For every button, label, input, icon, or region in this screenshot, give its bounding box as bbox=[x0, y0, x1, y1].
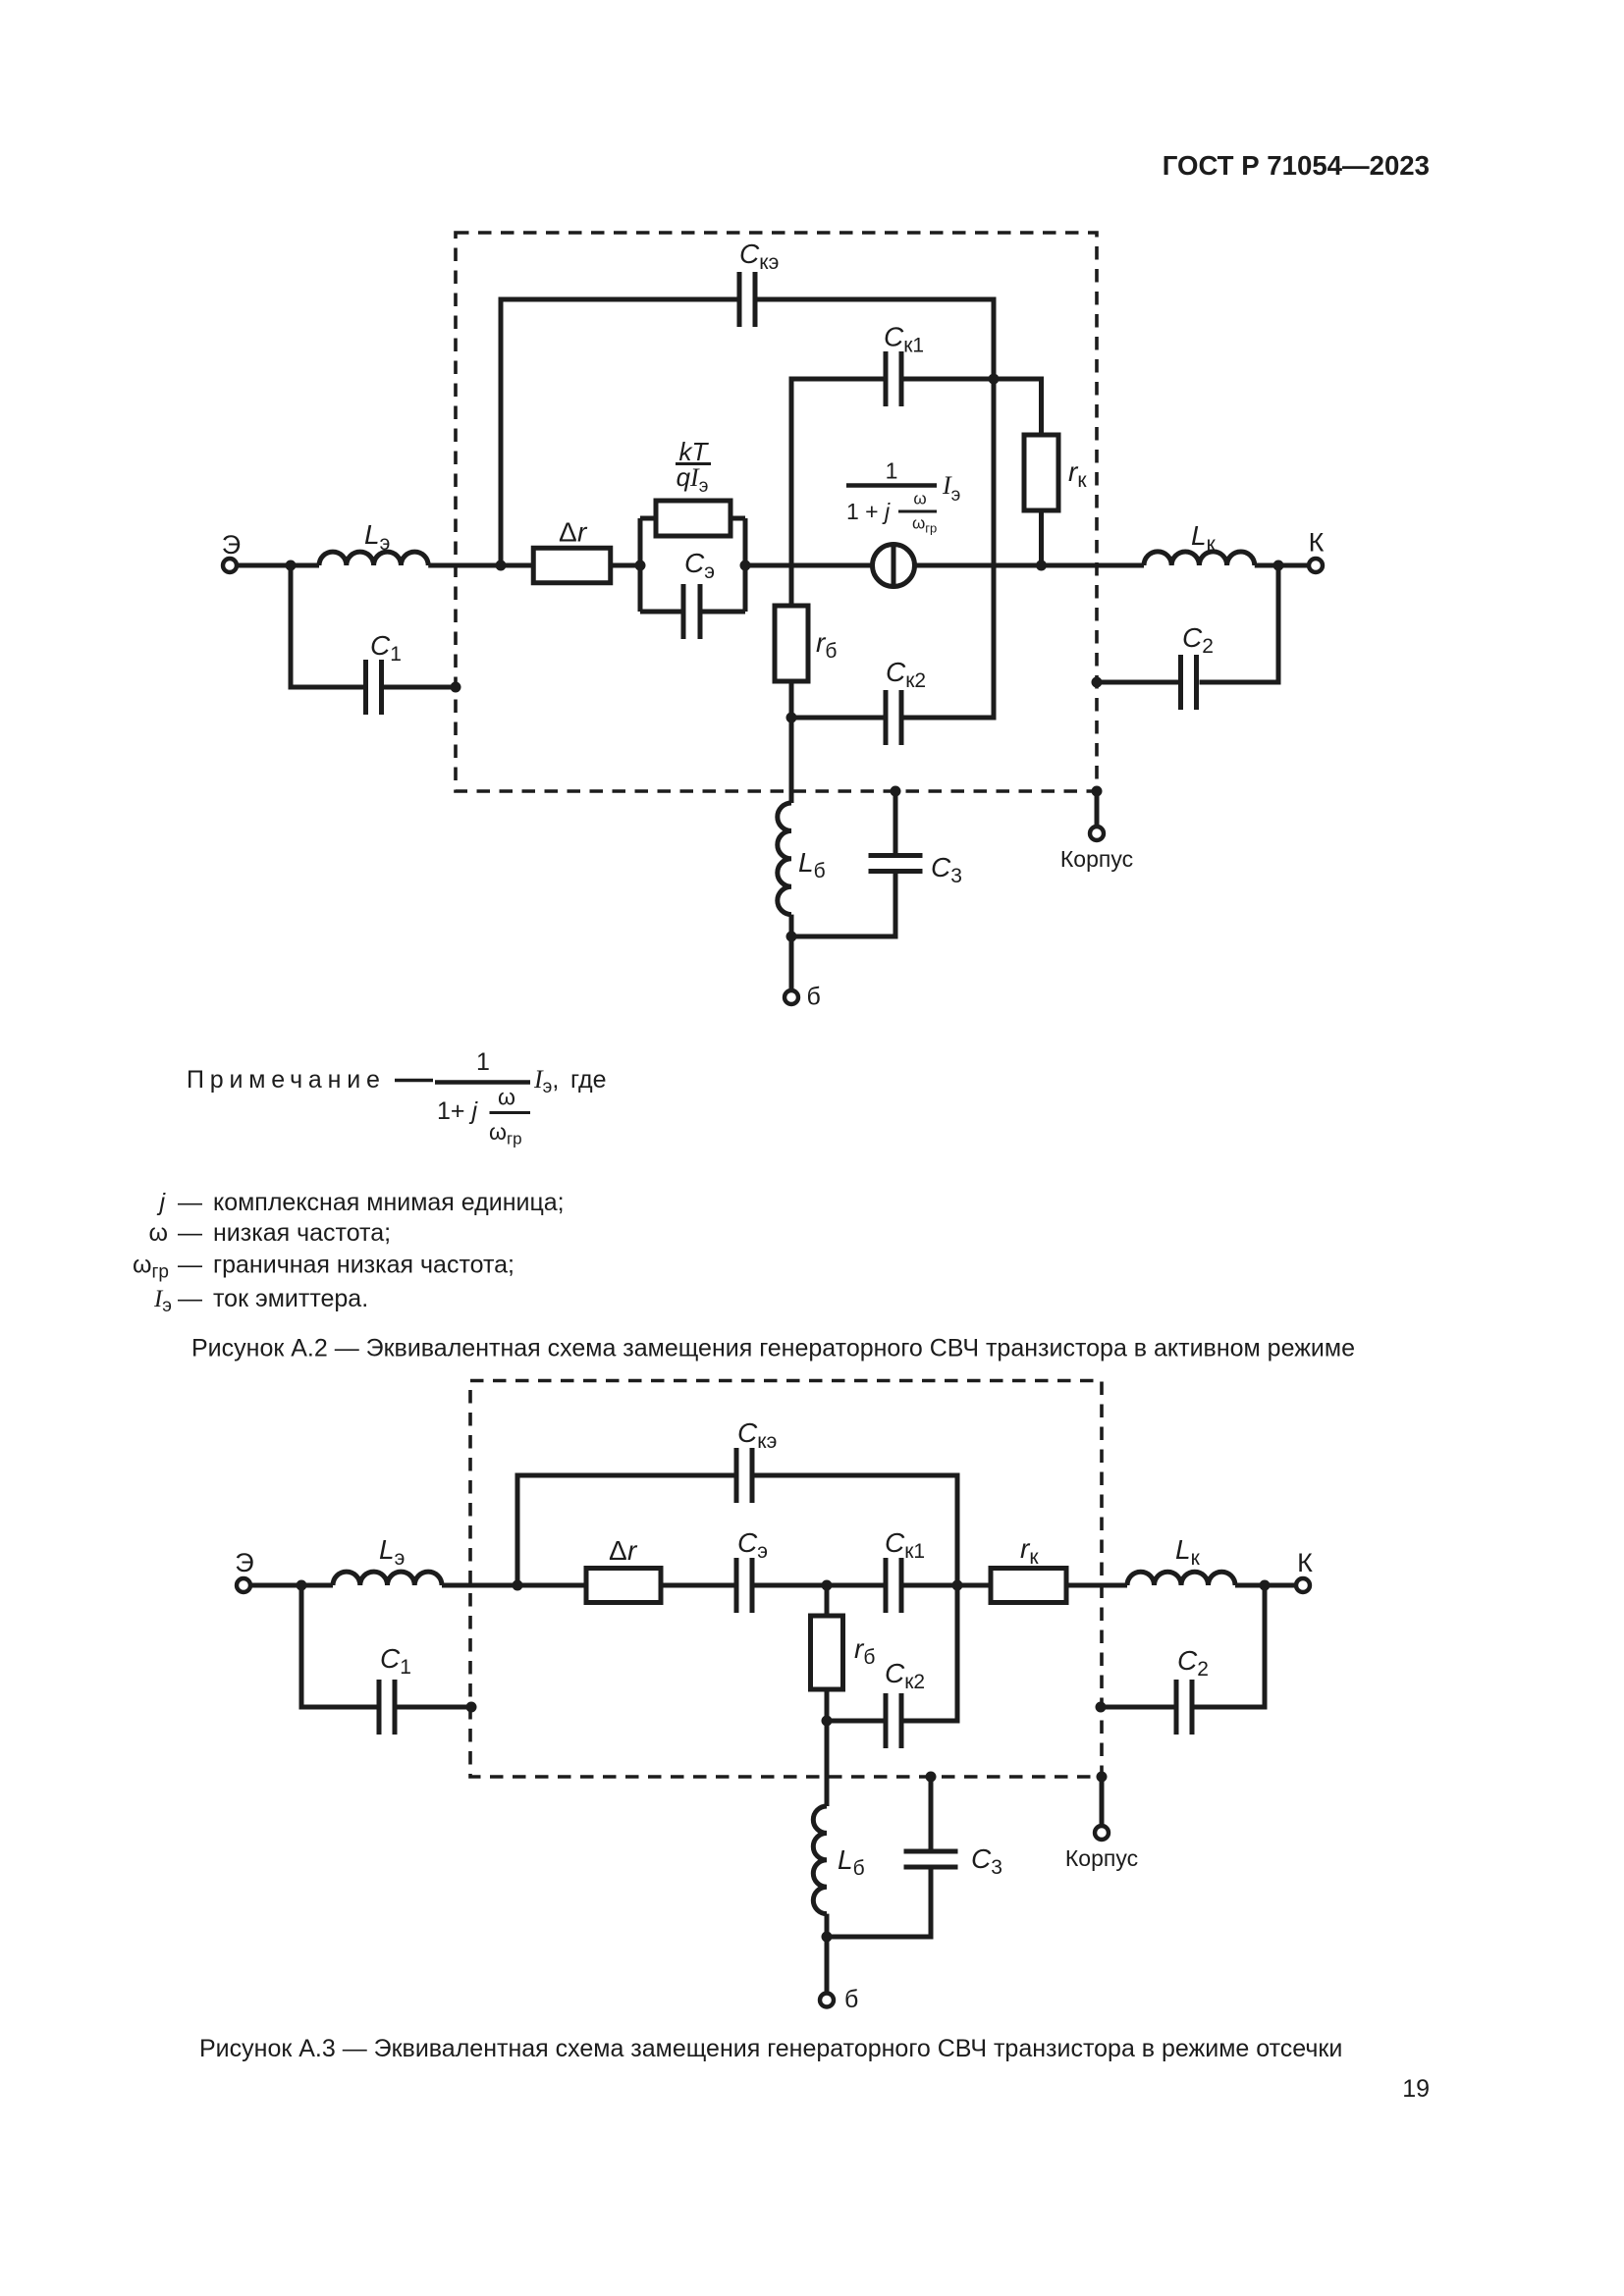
svg-text:б: б bbox=[807, 984, 821, 1011]
svg-text:—: — bbox=[178, 1252, 202, 1279]
junction base/Cк2 node bbox=[822, 1716, 833, 1727]
terminal Э (emitter) bbox=[237, 1578, 250, 1592]
svg-text:Δ: Δ bbox=[559, 517, 577, 548]
wire Cк2 left lead bbox=[791, 716, 884, 721]
svg-text:1: 1 bbox=[476, 1048, 490, 1076]
wire case stub bbox=[1100, 1777, 1105, 1826]
wire C2 to case bbox=[1101, 1705, 1174, 1710]
wire C3 top lead bbox=[893, 791, 898, 853]
wire C2 branch right bbox=[1200, 565, 1279, 682]
capacitor Cкэ bbox=[739, 272, 755, 327]
svg-text:ω: ω bbox=[498, 1085, 515, 1110]
wire C1 branch left bbox=[291, 565, 363, 687]
wire Cк1 to rк bbox=[904, 1583, 992, 1588]
resistor rк bbox=[1024, 435, 1058, 510]
svg-text:19: 19 bbox=[1402, 2075, 1430, 2103]
wire Cэ to Cк1 bbox=[755, 1583, 884, 1588]
junction C3/base node bbox=[786, 932, 797, 942]
terminal Корпус (case) bbox=[1095, 1826, 1109, 1840]
junction C3 tap on case bbox=[891, 786, 901, 797]
inductor Lб bbox=[778, 803, 791, 915]
wire RC-pair frame bbox=[640, 518, 745, 612]
wire Lэ to Δr bbox=[428, 563, 534, 568]
svg-text:б: б bbox=[844, 1986, 858, 2013]
capacitor C2 bbox=[1181, 655, 1197, 710]
wire Cк2 left lead bbox=[827, 1719, 884, 1724]
capacitor Cэ bbox=[683, 584, 700, 639]
wire case stub bbox=[1095, 791, 1100, 827]
capacitor Cэ bbox=[736, 1558, 752, 1613]
wire Δr to Cэ bbox=[661, 1583, 734, 1588]
junction emitter/C1 node bbox=[297, 1580, 307, 1591]
junction cap-bank node bbox=[989, 374, 1000, 385]
junction RC-pair left node bbox=[635, 561, 646, 571]
wire C3 bottom lead bbox=[827, 1869, 931, 1937]
junction collector node (rк) bbox=[1036, 561, 1047, 571]
svg-text:комплексная мнимая единица;: комплексная мнимая единица; bbox=[213, 1189, 565, 1216]
svg-text:К: К bbox=[1309, 528, 1325, 558]
wire rк to Lк bbox=[1066, 1583, 1127, 1588]
svg-text:1 + j: 1 + j bbox=[846, 499, 891, 524]
svg-text:Э: Э bbox=[235, 1548, 253, 1577]
terminal Э (emitter) bbox=[223, 559, 237, 572]
junction case corner node bbox=[1097, 1772, 1108, 1783]
wire Cк1 left + base riser bbox=[791, 379, 884, 565]
resistor rб bbox=[825, 1585, 830, 1721]
terminal б (base) bbox=[785, 990, 798, 1004]
capacitor C3 bbox=[869, 856, 923, 872]
wire C1 to case bbox=[398, 1705, 472, 1710]
terminal Корпус (case) bbox=[1090, 827, 1104, 840]
wire rк to collector bbox=[1039, 510, 1044, 565]
inductor Lэ bbox=[319, 552, 428, 565]
terminal К (collector) bbox=[1296, 1578, 1310, 1592]
wire Cк1 to rк bbox=[904, 379, 1042, 435]
junction C2/case node bbox=[1092, 677, 1103, 688]
svg-text:—: — bbox=[178, 1219, 202, 1247]
wire emitter lead bbox=[250, 1583, 333, 1588]
wire C1 to case bbox=[384, 685, 456, 690]
capacitor C3 bbox=[904, 1851, 958, 1867]
terminal б (base) bbox=[820, 1994, 834, 2007]
resistor rк bbox=[991, 1569, 1066, 1603]
wire Lб to б terminal bbox=[789, 915, 794, 990]
svg-text:ω: ω bbox=[148, 1219, 168, 1247]
transistor case boundary (dashed) bbox=[470, 1381, 1102, 1778]
svg-text:ток эмиттера.: ток эмиттера. bbox=[213, 1285, 368, 1312]
junction case corner node bbox=[1092, 786, 1103, 797]
svg-text:ГОСТ Р 71054—2023: ГОСТ Р 71054—2023 bbox=[1163, 150, 1430, 181]
wire Cкэ branch left bbox=[517, 1475, 734, 1585]
svg-text:Рисунок А.3 — Эквивалентная сх: Рисунок А.3 — Эквивалентная схема замеще… bbox=[199, 2035, 1342, 2062]
resistor rб bbox=[789, 565, 794, 718]
inductor Lк bbox=[1144, 552, 1255, 565]
svg-text:Э: Э bbox=[222, 530, 241, 560]
junction C3/base node bbox=[822, 1932, 833, 1943]
svg-text:К: К bbox=[1297, 1548, 1313, 1577]
capacitor Cкэ bbox=[736, 1448, 752, 1503]
wire C3 bottom lead bbox=[791, 874, 895, 936]
wire Lэ to Δr bbox=[442, 1583, 586, 1588]
svg-text:Δ: Δ bbox=[609, 1535, 627, 1566]
junction cap-bank node bbox=[952, 1580, 963, 1591]
capacitor C1 bbox=[379, 1680, 395, 1735]
resistor kT/qIэ bbox=[656, 501, 731, 536]
junction C1/case node bbox=[451, 682, 461, 693]
junction Cкэ branch tap bbox=[496, 561, 507, 571]
wire Δr to RC pair bbox=[611, 563, 640, 568]
resistor Δr bbox=[586, 1569, 661, 1603]
wire C3 top lead bbox=[929, 1777, 934, 1849]
junction C3 tap on case bbox=[926, 1772, 937, 1783]
svg-text:1: 1 bbox=[886, 458, 898, 484]
svg-text:Корпус: Корпус bbox=[1060, 846, 1133, 872]
capacitor Cк2 bbox=[886, 1693, 901, 1748]
capacitor Cк1 bbox=[886, 1558, 901, 1613]
wire Lк to К bbox=[1255, 563, 1309, 568]
junction C2 tap bbox=[1260, 1580, 1271, 1591]
current source (dependent) bbox=[873, 545, 915, 587]
junction C2/case node bbox=[1096, 1702, 1107, 1713]
inductor Lк bbox=[1127, 1572, 1235, 1585]
resistor Δr bbox=[533, 548, 611, 583]
svg-text:низкая частота;: низкая частота; bbox=[213, 1219, 391, 1247]
junction Cкэ branch tap bbox=[513, 1580, 523, 1591]
wire base lead through case bbox=[789, 718, 794, 803]
wire Lб to б terminal bbox=[825, 1914, 830, 1993]
junction base/Cк2 node bbox=[786, 713, 797, 723]
capacitor C1 bbox=[366, 660, 382, 715]
svg-text:Примечание: Примечание bbox=[187, 1066, 386, 1094]
wire C2 to case bbox=[1097, 680, 1178, 685]
svg-text:Корпус: Корпус bbox=[1065, 1845, 1138, 1871]
wire RC pair to current source bbox=[745, 563, 873, 568]
wire Cкэ branch left bbox=[501, 299, 737, 565]
junction C2 tap bbox=[1273, 561, 1284, 571]
svg-text:—: — bbox=[178, 1285, 202, 1312]
wire C1 branch left bbox=[301, 1585, 377, 1707]
terminal К (collector) bbox=[1309, 559, 1323, 572]
wire Lк to К bbox=[1235, 1583, 1296, 1588]
capacitor Cк1 bbox=[886, 351, 901, 406]
svg-text:1+ j: 1+ j bbox=[437, 1097, 478, 1125]
junction emitter/C1 node bbox=[286, 561, 297, 571]
inductor Lэ bbox=[333, 1572, 442, 1585]
wire C2 branch right bbox=[1195, 1585, 1266, 1707]
svg-text:где: где bbox=[570, 1066, 607, 1094]
junction RC-pair right node bbox=[740, 561, 751, 571]
capacitor Cк2 bbox=[886, 690, 901, 745]
wire base lead through case bbox=[825, 1721, 830, 1806]
capacitor C2 bbox=[1176, 1680, 1192, 1735]
svg-text:Рисунок А.2 — Эквивалентная сх: Рисунок А.2 — Эквивалентная схема замеще… bbox=[191, 1335, 1355, 1362]
svg-text:ω: ω bbox=[913, 490, 926, 508]
wire Cкэ right / riser / Cк2 right lead bbox=[755, 1475, 958, 1721]
wire current source to Lк bbox=[915, 563, 1145, 568]
wire emitter lead bbox=[237, 563, 319, 568]
transistor case boundary (dashed) bbox=[456, 233, 1097, 791]
svg-text:—: — bbox=[178, 1189, 202, 1216]
wire Cкэ right / cap-bank riser / Cк2 right lead bbox=[758, 299, 995, 718]
inductor Lб bbox=[813, 1806, 827, 1914]
junction C1/case node bbox=[466, 1702, 477, 1713]
svg-text:граничная низкая частота;: граничная низкая частота; bbox=[213, 1252, 514, 1279]
junction base node bbox=[822, 1580, 833, 1591]
